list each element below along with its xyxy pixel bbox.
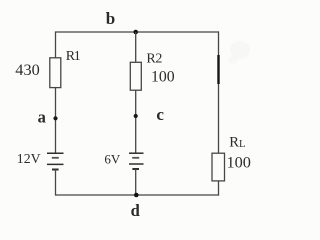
wire middle branch b to R2 <box>135 32 137 63</box>
svg-text:c: c <box>156 105 164 124</box>
svg-text:100: 100 <box>227 153 251 172</box>
resistor RL <box>212 153 225 181</box>
svg-text:b: b <box>106 9 115 28</box>
svg-text:a: a <box>38 107 46 126</box>
wire 6V battery to node d <box>135 169 137 195</box>
node d junction dot <box>134 193 139 198</box>
node c junction dot <box>134 114 138 118</box>
wire battery to bottom bus <box>55 170 57 196</box>
svg-text:12V: 12V <box>17 151 41 166</box>
node b junction dot <box>133 30 138 35</box>
wire right branch upper <box>218 31 220 153</box>
node a junction dot <box>53 116 57 120</box>
ink blob on right wire <box>217 55 219 84</box>
wire R2 to battery through node c <box>135 90 137 153</box>
wire RL to bottom bus <box>218 181 220 196</box>
wire left branch upper (b to R1) <box>55 31 57 58</box>
battery 6V plates <box>129 153 144 169</box>
svg-text:6V: 6V <box>104 151 121 166</box>
svg-text:R1: R1 <box>66 49 81 64</box>
svg-text:R2: R2 <box>146 52 162 67</box>
wire R1 to battery through node a <box>55 88 57 153</box>
svg-text:d: d <box>131 201 140 219</box>
svg-text:100: 100 <box>151 69 175 86</box>
svg-text:430: 430 <box>15 60 39 79</box>
resistor R2 <box>130 62 141 90</box>
wire top bus b <box>56 31 220 33</box>
battery 12V plates <box>47 153 64 169</box>
wire bottom bus d <box>56 194 220 196</box>
resistor R1 <box>50 58 61 88</box>
